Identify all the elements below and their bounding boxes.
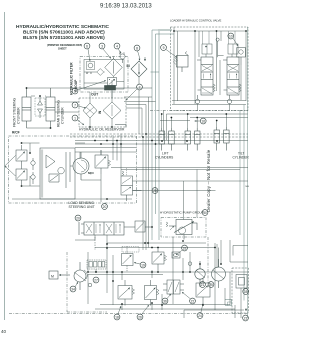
balloon 21 (200, 282, 206, 288)
balloon 8 (134, 45, 140, 60)
hydraulic filter group dash-dot box (80, 57, 128, 93)
svg-text:9: 9 (163, 46, 165, 50)
lift cylinder pair 1 (159, 128, 174, 151)
balloon 22 (182, 292, 195, 304)
wire rcf internals (12, 143, 132, 199)
svg-text:28: 28 (153, 189, 157, 193)
suction filter diamond (131, 61, 147, 77)
balloon 4 (114, 43, 121, 53)
svg-text:40: 40 (1, 329, 7, 334)
balloon 16 (195, 118, 207, 124)
balloon 34 (70, 282, 78, 292)
svg-text:10: 10 (229, 35, 233, 39)
leader arrow left 2 (5, 166, 16, 176)
svg-text:3: 3 (101, 45, 103, 49)
svg-text:O: O (90, 72, 92, 75)
balloon 9 (161, 45, 177, 58)
loader valve dashed box (171, 27, 249, 111)
rear steering cylinder (46, 88, 55, 128)
svg-text:33: 33 (183, 247, 187, 251)
balloon 18 (114, 306, 121, 320)
balloon 6 (84, 43, 90, 61)
wire pump group connections (95, 237, 248, 288)
relief valve A in box (16, 145, 27, 166)
front steering cylinder (22, 88, 31, 128)
arrow mark near filter (144, 57, 146, 61)
svg-text:19: 19 (141, 264, 145, 268)
fan return arrow (245, 308, 247, 311)
svg-text:BL575 (S/N 572011001 AND ABOVE: BL575 (S/N 572011001 AND ABOVE) (23, 35, 105, 41)
crossover check valves (38, 96, 43, 118)
filter diamond in group (105, 59, 123, 77)
wire bottom section runs (9, 237, 248, 318)
svg-text:20: 20 (103, 205, 107, 209)
balloon 26 (137, 305, 149, 320)
svg-text:CYLINDERS: CYLINDERS (155, 156, 173, 160)
svg-text:HYDRAULIC/HYDROSTATIC SCHEMATI: HYDRAULIC/HYDROSTATIC SCHEMATIC (16, 24, 110, 30)
svg-text:27: 27 (94, 279, 98, 283)
small check diamond (97, 69, 104, 76)
svg-text:M: M (51, 275, 54, 279)
svg-text:34: 34 (71, 288, 75, 292)
relief valve top mid (122, 246, 140, 272)
steering unit right box (124, 221, 151, 232)
bottom valve 3 (196, 278, 210, 303)
svg-text:30: 30 (203, 211, 207, 215)
svg-text:24: 24 (198, 314, 202, 318)
check circle A (31, 158, 35, 170)
drive motor circle 1 (195, 261, 205, 287)
drive motor circle 2 (212, 259, 226, 288)
svg-text:2: 2 (139, 86, 141, 90)
bottom valve 1 (118, 280, 135, 306)
svg-text:OUT: OUT (91, 93, 99, 97)
small box top of drive motors (172, 252, 180, 258)
svg-text:7: 7 (74, 104, 76, 108)
svg-text:SHEET: SHEET (58, 47, 67, 51)
spool2 check circle (227, 95, 231, 104)
wire steering cylinders top (27, 88, 105, 128)
charge check circle (88, 283, 92, 287)
load sensing steering unit label (69, 201, 95, 209)
svg-text:22: 22 (191, 300, 195, 304)
spool valve 1 (197, 44, 215, 95)
spool valve 2 (223, 44, 241, 95)
svg-text:23: 23 (244, 317, 248, 321)
balloon 33 (176, 245, 187, 255)
svg-text:W: W (86, 72, 89, 75)
lift cylinders label (155, 152, 173, 160)
balloon 36 (162, 294, 171, 304)
crossover relief dashed box (35, 98, 45, 116)
reservoir strainer diamond left (83, 103, 97, 118)
svg-text:IN: IN (127, 64, 131, 68)
balloon 35 (243, 289, 249, 295)
svg-text:HYDROSTATIC PUMP GROUP: HYDROSTATIC PUMP GROUP (160, 211, 204, 215)
svg-text:21: 21 (201, 283, 205, 287)
svg-text:Dealer Copy -- Not for Resale: Dealer Copy -- Not for Resale (206, 149, 211, 212)
svg-text:26: 26 (138, 316, 142, 320)
svg-text:16: 16 (201, 120, 205, 124)
balloon 27 (93, 277, 99, 283)
manifold gauge block (87, 260, 106, 273)
balloon 10 (228, 33, 238, 46)
wire steering mid connections (70, 134, 137, 203)
svg-text:CYLINDER: CYLINDER (233, 156, 250, 160)
hydrostatic pump symbol (166, 220, 197, 240)
bypass check valve box (108, 78, 117, 86)
reservoir strainer diamond right (103, 102, 121, 119)
tilt cylinder label (233, 152, 250, 160)
wire filter group internals (84, 57, 124, 99)
balloon 20b (75, 215, 81, 221)
gauge W/O right (119, 53, 125, 64)
relief valve B in box (16, 166, 27, 185)
steering unit horizontal spool (79, 222, 124, 235)
right fan motor dashed box (232, 268, 248, 313)
svg-text:(PRINTED DECEMBER 2005): (PRINTED DECEMBER 2005) (47, 43, 82, 47)
M drive box (49, 271, 70, 279)
svg-text:20: 20 (76, 217, 80, 221)
charge pump circle (74, 262, 87, 290)
svg-text:HYDRAULIC OIL RESERVOIR: HYDRAULIC OIL RESERVOIR (79, 128, 125, 132)
check circle between motors (188, 262, 192, 266)
steering relief valve box (95, 150, 111, 174)
pedal pilot valve block (173, 52, 189, 73)
balloon 3 (99, 43, 111, 58)
balloon 28 (152, 188, 158, 194)
relief valve top right mid (152, 247, 167, 270)
balloon 30 (202, 210, 208, 216)
hydrostatic pump dash-dot box (161, 218, 206, 238)
svg-text:LOADER HYDRAULIC CONTROL VALVE: LOADER HYDRAULIC CONTROL VALVE (170, 19, 221, 23)
svg-text:4: 4 (116, 45, 118, 49)
balloon 2 (126, 84, 142, 100)
balloon 1 (72, 115, 84, 125)
svg-text:BL570 (S/N 570611001 AND ABOVE: BL570 (S/N 570611001 AND ABOVE) (23, 30, 105, 36)
gerotor steering pump circle (73, 152, 89, 180)
svg-text:IN: IN (98, 110, 102, 114)
svg-text:18: 18 (115, 316, 119, 320)
svg-text:R/CF: R/CF (12, 131, 20, 135)
svg-text:9:16:39 13.03.2013: 9:16:39 13.03.2013 (100, 4, 152, 10)
rear steering cylinder label (vertical) (57, 100, 65, 127)
svg-text:HYDRAULIC FILTER: HYDRAULIC FILTER (70, 62, 74, 95)
wire reservoir connections (90, 80, 156, 250)
svg-text:CYLINDER: CYLINDER (17, 107, 21, 124)
solenoid box (item 10) (237, 48, 246, 66)
svg-text:6: 6 (86, 45, 88, 49)
balloon 20 (102, 204, 108, 210)
svg-text:CYLINDER: CYLINDER (61, 107, 65, 124)
balloon 24 (197, 304, 203, 319)
vent circle on pilot line (216, 38, 219, 57)
tilt cylinder pair (214, 127, 229, 151)
svg-text:1: 1 (74, 117, 76, 121)
flush valve left (163, 280, 184, 294)
hydraulic filter group label (vertical) (70, 62, 79, 95)
balloon 23 (243, 315, 249, 321)
filter group inner frame (84, 60, 124, 90)
lift cylinder pair 2 (185, 128, 200, 151)
wire loader valve internals (172, 27, 246, 111)
balloon 7 (72, 102, 86, 108)
front steering cylinder label (vertical) (13, 98, 21, 127)
balloon 25 (208, 282, 214, 288)
page left border line (4, 12, 6, 320)
balloon 5 (72, 81, 106, 94)
wire below steering unit (75, 235, 107, 253)
gauge W/O left (86, 62, 95, 76)
fan motor box (236, 275, 247, 289)
steering unit dash-dot box (9, 136, 137, 203)
svg-text:25: 25 (209, 283, 213, 287)
check circle B (31, 172, 35, 184)
spool1 check circle (195, 95, 199, 104)
suction pipe elbow left of valve (151, 30, 175, 240)
svg-text:O: O (123, 53, 125, 56)
bottom valve 2 (145, 280, 160, 306)
teal pipe corner bottom right (225, 300, 232, 306)
svg-text:36: 36 (163, 300, 167, 304)
metering spool valve (steering unit) (121, 168, 142, 201)
svg-text:5: 5 (74, 90, 76, 94)
oil cooler block (105, 86, 116, 91)
svg-text:8: 8 (136, 47, 138, 51)
wire main horizontal runs middle (70, 27, 248, 318)
svg-text:STEERING UNIT: STEERING UNIT (69, 205, 95, 209)
steering priority valve body (40, 148, 75, 199)
leader arrow left 1 (5, 156, 16, 167)
svg-text:35: 35 (244, 290, 248, 294)
balloon 19 (134, 262, 146, 268)
svg-text:M|O: M|O (88, 171, 94, 175)
hydraulic oil reservoir dashed box (79, 98, 126, 127)
